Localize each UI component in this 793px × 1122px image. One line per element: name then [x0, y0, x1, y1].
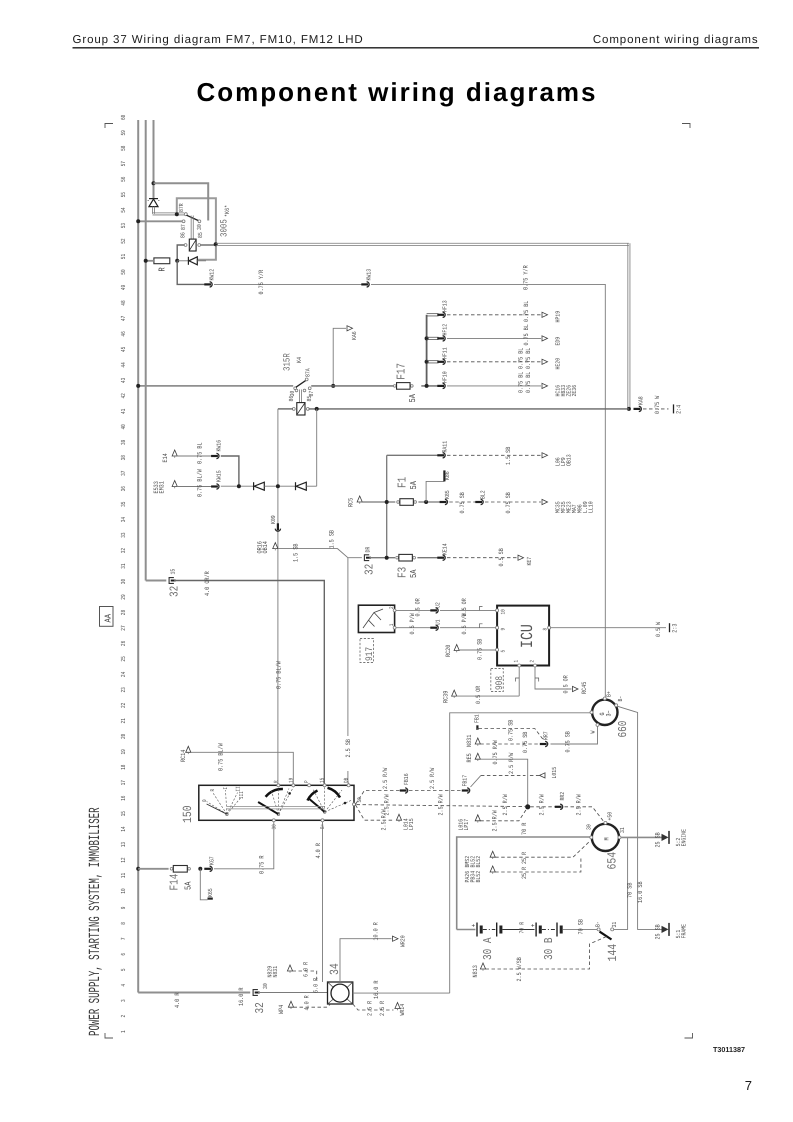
- frame corner top-right: [682, 124, 690, 129]
- bus wire 30-feed 3: [153, 120, 155, 199]
- wire bus1 bottom to connector 32/30: [138, 992, 250, 994]
- svg-text:2.5 R/W: 2.5 R/W: [429, 768, 436, 789]
- wire 87R node down to KW12 row: [177, 261, 207, 285]
- connector K85: [440, 499, 448, 504]
- wire battery interlink 70 R: [503, 929, 535, 931]
- svg-text:2.5 R/W: 2.5 R/W: [508, 753, 515, 774]
- svg-text:FB16: FB16: [403, 773, 410, 785]
- wire alternator W to RR7: [551, 726, 598, 744]
- svg-text:0.75 R/W: 0.75 R/W: [492, 740, 499, 764]
- arrow ED9: [542, 336, 548, 341]
- wire E14 to KW16: [177, 455, 213, 457]
- relay 3005 coil link (outlined): [190, 216, 192, 240]
- wire diode V2 to relay housing: [197, 260, 206, 262]
- svg-text:KA8: KA8: [638, 396, 645, 405]
- arrow N829 dashed: [287, 965, 292, 971]
- svg-text:37: 37: [120, 470, 127, 476]
- wire to connector RA11: [387, 454, 440, 456]
- arrow WP4 dashed: [288, 1001, 293, 1007]
- arrow E533 EM31: [172, 481, 177, 487]
- svg-text:49: 49: [120, 285, 127, 291]
- svg-text:U2: U2: [435, 602, 442, 608]
- svg-text:15: 15: [319, 778, 326, 783]
- wire RA11 dashed 1.5 SB: [447, 454, 541, 456]
- svg-text:15: 15: [120, 811, 127, 817]
- svg-text:660: 660: [616, 721, 630, 738]
- wire ICU pin1 down: [518, 667, 520, 696]
- svg-text:44: 44: [120, 362, 127, 368]
- svg-text:70 R: 70 R: [521, 823, 528, 835]
- wire ICU pin2 down to RC45: [535, 667, 572, 689]
- svg-text:32: 32: [120, 548, 127, 554]
- wire HF13 dashed to HP19: [447, 314, 541, 316]
- svg-text:B+: B+: [605, 691, 612, 697]
- svg-text:K65: K65: [207, 888, 214, 897]
- svg-text:LP17: LP17: [463, 819, 470, 831]
- svg-text:HF11: HF11: [441, 347, 448, 359]
- switch fan middle: [277, 813, 280, 816]
- wire N831 dashed to RR7: [480, 743, 541, 745]
- harness tick pin10 row: [480, 607, 483, 611]
- terminal K65 branch: [200, 869, 207, 900]
- dashed 34 to WR14: [353, 1004, 394, 1010]
- svg-text:31: 31: [120, 563, 127, 569]
- dashed BMS2 row: [490, 851, 495, 857]
- svg-text:32: 32: [253, 1002, 267, 1013]
- svg-text:9: 9: [120, 906, 127, 909]
- ICU pin 8: [548, 626, 551, 629]
- svg-text:4.0 R: 4.0 R: [304, 995, 311, 1010]
- svg-text:39: 39: [120, 439, 127, 445]
- svg-text:33: 33: [120, 532, 127, 538]
- svg-text:FRAME: FRAME: [681, 924, 688, 939]
- ignition pin B+: [321, 819, 324, 822]
- svg-text:7: 7: [120, 937, 127, 940]
- svg-text:57: 57: [120, 161, 127, 167]
- relay 3005 coil pin 86: [184, 244, 187, 247]
- svg-text:16: 16: [120, 795, 127, 801]
- svg-text:2: 2: [528, 660, 535, 663]
- ICU pin 10: [496, 609, 499, 612]
- relay 3005 pin 30: [198, 220, 201, 223]
- svg-text:3~: 3~: [606, 710, 613, 716]
- svg-text:16.0 R: 16.0 R: [373, 980, 380, 999]
- svg-text:K86: K86: [444, 471, 451, 480]
- svg-text:+50: +50: [607, 812, 614, 821]
- svg-text:2.5 R/W: 2.5 R/W: [382, 768, 389, 789]
- svg-text:1: 1: [120, 1030, 127, 1033]
- ignition switch common rail: [227, 805, 325, 807]
- svg-text:40: 40: [120, 424, 127, 430]
- connector 32 pin DR: [364, 555, 369, 561]
- wire F17 to HF branch: [421, 385, 440, 387]
- wire KG7 to ignition pin 30: [214, 822, 274, 869]
- svg-text:WR14: WR14: [399, 1004, 406, 1016]
- wire BL2 dashed to arrow: [485, 501, 541, 503]
- wire HF10 to HC16: [447, 385, 541, 387]
- node K86 branch: [424, 500, 428, 504]
- wire 0.75 W to ground 2:4: [643, 408, 669, 410]
- svg-text:N813: N813: [472, 965, 479, 977]
- svg-text:0.5 OR: 0.5 OR: [563, 675, 570, 693]
- svg-text:KA6: KA6: [351, 331, 358, 340]
- svg-text:0.75 BL/W: 0.75 BL/W: [218, 743, 225, 771]
- arrow RC45: [573, 686, 579, 691]
- svg-text:RC14: RC14: [180, 750, 187, 762]
- svg-text:RR2: RR2: [559, 792, 566, 801]
- wire 917 pin1 to U1: [396, 627, 433, 629]
- relay 315R blade: [296, 380, 306, 387]
- svg-text:EM31: EM31: [159, 481, 166, 493]
- arrow HP19: [542, 312, 548, 317]
- wire RC20 to ICU pin5: [459, 649, 496, 651]
- svg-text:9: 9: [500, 628, 507, 631]
- svg-text:DR: DR: [364, 546, 371, 552]
- svg-text:Component wiring diagrams: Component wiring diagrams: [196, 77, 597, 107]
- wire RC14 to pin 19: [191, 752, 293, 784]
- wire ICU pin8 to ground 2:3: [551, 627, 666, 629]
- wire alternator B- to frame ground 16.0 SB: [618, 706, 662, 929]
- arrow N831: [475, 738, 480, 744]
- wire RR2 dashed to starter 50: [565, 807, 604, 821]
- arrow RE5: [475, 753, 480, 759]
- svg-text:W: W: [590, 730, 597, 733]
- relay 3005 pin 87R: [184, 213, 187, 216]
- ignition pin 15: [323, 784, 326, 787]
- arrow KA6: [347, 326, 353, 331]
- relay 315R pin 87A: [305, 378, 308, 381]
- node bus1 line15: [136, 384, 140, 388]
- wire coil 86 down to resistor row: [177, 245, 184, 259]
- svg-text:KW12: KW12: [209, 269, 216, 281]
- fuse F3 5A: [396, 556, 399, 559]
- connector KW16: [211, 453, 219, 458]
- svg-text:8: 8: [542, 628, 549, 631]
- wire K85 dashed to BL2: [449, 501, 478, 503]
- svg-text:2:4: 2:4: [676, 405, 683, 414]
- connector KW15: [211, 484, 219, 489]
- svg-text:45: 45: [120, 347, 127, 353]
- wire HF12 to ED9: [447, 337, 541, 339]
- svg-text:26: 26: [120, 641, 127, 647]
- svg-text:0.5 W: 0.5 W: [655, 622, 662, 637]
- connector HF11: [437, 359, 445, 364]
- svg-text:*K6*: *K6*: [224, 205, 231, 217]
- node bus1 F14: [136, 867, 140, 871]
- connector 32 pin 15: [169, 578, 174, 584]
- svg-text:144: 144: [606, 944, 620, 962]
- svg-text:2.5 R/W: 2.5 R/W: [502, 794, 509, 815]
- section marker AA: [100, 607, 114, 627]
- wire 917 pin2 to U2: [396, 609, 433, 611]
- svg-text:87A: 87A: [304, 368, 311, 377]
- svg-text:21: 21: [120, 718, 127, 724]
- wire relay 3005 output to right loop (outlined): [216, 242, 629, 244]
- svg-text:5A: 5A: [408, 394, 418, 403]
- ground 2:3: [669, 623, 671, 632]
- svg-text:0.75 BL: 0.75 BL: [197, 442, 204, 464]
- connector KE14: [437, 555, 445, 560]
- svg-text:KG7: KG7: [208, 856, 215, 865]
- relay 315R pin 87: [308, 387, 311, 390]
- wire to connector HF12: [427, 336, 439, 338]
- node relay output: [214, 242, 218, 246]
- svg-text:30 A: 30 A: [481, 937, 495, 960]
- svg-text:ICU: ICU: [519, 624, 538, 648]
- svg-text:RC39: RC39: [443, 691, 450, 703]
- svg-text:5: 5: [120, 968, 127, 971]
- svg-text:16.0 R: 16.0 R: [238, 987, 245, 1006]
- svg-text:0.75 BL: 0.75 BL: [523, 301, 530, 322]
- arrow WR14: [395, 1003, 400, 1009]
- arrow WR20: [393, 936, 399, 941]
- svg-text:29: 29: [120, 594, 127, 600]
- wire D+ feed from starter relay: [450, 713, 590, 993]
- wire battery minus 70 SB to switch 144: [563, 928, 597, 930]
- wire 87 to fuse F17: [311, 385, 394, 387]
- node resistor right: [175, 259, 179, 263]
- svg-text:2.5 W/SB: 2.5 W/SB: [516, 957, 523, 981]
- wire pin50 middle branch to node: [357, 805, 526, 807]
- wire F3 to KE14: [417, 557, 440, 559]
- svg-text:55: 55: [120, 192, 127, 198]
- ground 5:2 ENGINE: [662, 834, 669, 841]
- svg-text:10: 10: [120, 888, 127, 894]
- ignition pin 30: [272, 819, 275, 822]
- svg-text:0.5 SB: 0.5 SB: [498, 548, 505, 566]
- svg-text:M: M: [604, 837, 611, 840]
- svg-text:654: 654: [606, 852, 620, 870]
- svg-text:5A: 5A: [183, 881, 193, 890]
- svg-text:0.75 SB: 0.75 SB: [459, 492, 466, 513]
- svg-text:41: 41: [120, 408, 127, 414]
- svg-text:HP19: HP19: [555, 311, 562, 323]
- wire pin 87 to bus1: [138, 220, 182, 222]
- svg-text:4.0 R: 4.0 R: [174, 993, 181, 1008]
- node diode row: [276, 484, 280, 488]
- relay 34 box: [328, 982, 353, 1004]
- battery switch 144 pin 31: [611, 928, 614, 931]
- svg-text:30 B: 30 B: [542, 938, 556, 960]
- svg-text:KW16: KW16: [215, 440, 222, 452]
- wire node dashed to RR2: [530, 806, 556, 808]
- wire KE14 dashed to KE7: [447, 557, 517, 559]
- connector RR7: [540, 741, 548, 746]
- arrow L06 LP9 OB13: [542, 453, 548, 458]
- svg-text:6.0 R: 6.0 R: [313, 978, 320, 993]
- wire V3 to node: [264, 485, 295, 487]
- svg-text:0.75 Y/R: 0.75 Y/R: [523, 265, 530, 290]
- resistor R: [154, 258, 170, 264]
- svg-text:2.5 SB: 2.5 SB: [345, 739, 352, 758]
- arrow RC39: [452, 690, 457, 696]
- arrow HC16: [542, 383, 548, 388]
- connector BL2 inline: [475, 499, 483, 504]
- ICU pin 9: [496, 626, 499, 629]
- svg-text:19: 19: [120, 749, 127, 755]
- svg-text:25 SB: 25 SB: [655, 924, 662, 939]
- connector FB16: [400, 788, 408, 793]
- svg-text:16.0 SB: 16.0 SB: [637, 881, 644, 903]
- connector KA8 on ground branch: [634, 406, 642, 411]
- wire to connector HF11: [427, 360, 439, 362]
- svg-text:36: 36: [120, 486, 127, 492]
- svg-text:N831: N831: [272, 966, 279, 978]
- wire U2 to ICU pin10: [440, 609, 496, 611]
- node 87R branch: [175, 212, 179, 216]
- svg-text:5A: 5A: [409, 569, 419, 578]
- svg-text:DB: DB: [343, 777, 350, 783]
- svg-text:5A: 5A: [409, 481, 419, 490]
- svg-text:RC20: RC20: [445, 645, 452, 657]
- svg-text:42: 42: [120, 393, 127, 399]
- node F3 branch: [385, 556, 389, 560]
- svg-text:52: 52: [120, 238, 127, 244]
- svg-text:BL52: BL52: [475, 871, 482, 883]
- fuse F17 5A: [393, 385, 396, 388]
- svg-text:+: +: [472, 924, 476, 930]
- svg-text:0.75 W: 0.75 W: [654, 396, 661, 414]
- wire starter to engine ground: [621, 836, 662, 838]
- fuse F14 5A: [170, 868, 173, 871]
- ignition switch 150 box: [199, 785, 354, 820]
- wire FB16 to FB17: [409, 790, 463, 792]
- svg-text:AA: AA: [103, 614, 113, 623]
- harness tick pin9 row: [480, 624, 483, 628]
- svg-text:1.5 SB: 1.5 SB: [505, 447, 512, 465]
- connector KW13: [361, 282, 369, 287]
- alternator 660 body: [592, 700, 617, 725]
- svg-text:2: 2: [120, 1015, 127, 1018]
- svg-text:54: 54: [120, 207, 127, 213]
- wire diode to pin 87R (outlined): [151, 207, 153, 214]
- svg-text:2.5 R/W: 2.5 R/W: [381, 809, 388, 830]
- bus wire 30-feed 2: [145, 120, 147, 581]
- relay 34 contact: [331, 984, 349, 1002]
- switch fan right: [323, 811, 326, 814]
- svg-text:30: 30: [196, 224, 203, 230]
- connector K09 inline: [275, 523, 280, 531]
- svg-text:0.75 BL: 0.75 BL: [523, 324, 530, 345]
- svg-text:12: 12: [120, 857, 127, 863]
- svg-text:86: 86: [179, 232, 186, 238]
- svg-text:F1: F1: [396, 477, 410, 488]
- svg-text:70 SB: 70 SB: [577, 919, 584, 934]
- alternator pin B-: [615, 704, 618, 707]
- svg-text:LL10: LL10: [588, 501, 595, 513]
- svg-text:14: 14: [120, 826, 127, 832]
- svg-text:E14: E14: [162, 453, 169, 462]
- connector HF12: [437, 336, 445, 341]
- wire OR16 to DR connector: [278, 549, 362, 558]
- arrow OR16 OB14: [273, 543, 278, 549]
- svg-text:Component wiring diagrams: Component wiring diagrams: [593, 34, 759, 46]
- main cable loop to starter: [457, 837, 592, 930]
- frame corner top-left: [105, 124, 113, 129]
- wire to connector HF13: [427, 313, 439, 315]
- svg-text:31: 31: [611, 921, 618, 927]
- svg-text:R: R: [158, 267, 168, 272]
- svg-text:10: 10: [500, 609, 507, 615]
- ICU pin 5: [496, 648, 499, 651]
- svg-text:KE7: KE7: [526, 557, 533, 566]
- svg-text:2.5 R/W: 2.5 R/W: [539, 794, 546, 815]
- relay 315R coil pin 85: [306, 408, 309, 411]
- terminal FB1: [476, 725, 478, 730]
- ICU pin 1: [518, 664, 521, 667]
- wire FB17 up to L015 row: [471, 775, 481, 787]
- wire coil 85 to output node: [201, 244, 216, 246]
- wire U1 to ICU pin9: [440, 627, 496, 629]
- svg-text:WR20: WR20: [400, 935, 407, 947]
- svg-text:B-: B-: [617, 696, 624, 702]
- svg-text:0.75 BL: 0.75 BL: [525, 372, 532, 393]
- svg-text:13: 13: [120, 842, 127, 848]
- svg-text:Group 37 Wiring diagram FM7, F: Group 37 Wiring diagram FM7, FM10, FM12 …: [73, 34, 364, 46]
- svg-text:2.5 R: 2.5 R: [367, 1001, 374, 1016]
- ignition pin R: [277, 784, 280, 787]
- connector HF10: [437, 383, 445, 388]
- svg-text:917: 917: [365, 647, 376, 661]
- svg-text:48: 48: [120, 300, 127, 306]
- svg-text:908: 908: [495, 676, 506, 690]
- svg-text:RC5: RC5: [348, 498, 355, 507]
- svg-text:3: 3: [120, 999, 127, 1002]
- svg-text:I: I: [222, 787, 229, 790]
- ignition pin 19: [292, 784, 295, 787]
- svg-text:32: 32: [363, 564, 377, 575]
- diode row drop: [316, 409, 318, 486]
- svg-text:POWER SUPPLY, STARTING SYSTEM,: POWER SUPPLY, STARTING SYSTEM, IMMOBILIS…: [86, 807, 104, 1036]
- wire ignition B+ down to 34: [322, 822, 324, 982]
- connector RA11: [437, 453, 445, 458]
- diode V3: [253, 482, 255, 490]
- svg-text:56: 56: [120, 176, 127, 182]
- frame corner bottom-right: [685, 1033, 693, 1038]
- node ignition 50 distribution: [525, 804, 530, 809]
- ground 5:1 FRAME: [662, 926, 669, 933]
- svg-text:0.75 BL: 0.75 BL: [518, 372, 525, 393]
- svg-text:KW15: KW15: [215, 470, 222, 482]
- svg-text:4.0 OR/R: 4.0 OR/R: [204, 571, 211, 596]
- wire 34 up to WR20: [340, 939, 392, 982]
- grid ruler numbers 1-60: [120, 114, 127, 1033]
- wire DR to fuse F3: [369, 557, 395, 559]
- wire KW13 to alternator B+ drop: [371, 284, 605, 697]
- svg-text:2.5 R/W: 2.5 R/W: [575, 794, 582, 815]
- svg-text:0.75 R: 0.75 R: [259, 855, 266, 874]
- connector KW12: [204, 282, 212, 287]
- svg-text:KW13: KW13: [366, 269, 373, 281]
- node coil branch: [315, 407, 319, 411]
- svg-text:23: 23: [120, 687, 127, 693]
- antenna 917 pin 2: [393, 609, 396, 612]
- ignition pin P: [308, 784, 311, 787]
- wire 87A up to KA6 arrow: [333, 328, 346, 386]
- alternator pin B+: [603, 697, 606, 700]
- RA11 branch vertical: [386, 455, 388, 557]
- svg-text:OB13: OB13: [566, 454, 573, 466]
- connector RR2: [555, 804, 563, 809]
- wire pin50 branch down L014: [356, 805, 395, 820]
- svg-text:OB14: OB14: [262, 541, 269, 553]
- arrow HE20: [542, 359, 548, 364]
- relay 3005 gray housing: [177, 198, 216, 259]
- wire bus1 to F14: [138, 868, 168, 870]
- svg-text:30: 30: [262, 983, 269, 989]
- svg-text:0.5 P/W: 0.5 P/W: [409, 613, 416, 634]
- starter pin 31: [618, 836, 621, 839]
